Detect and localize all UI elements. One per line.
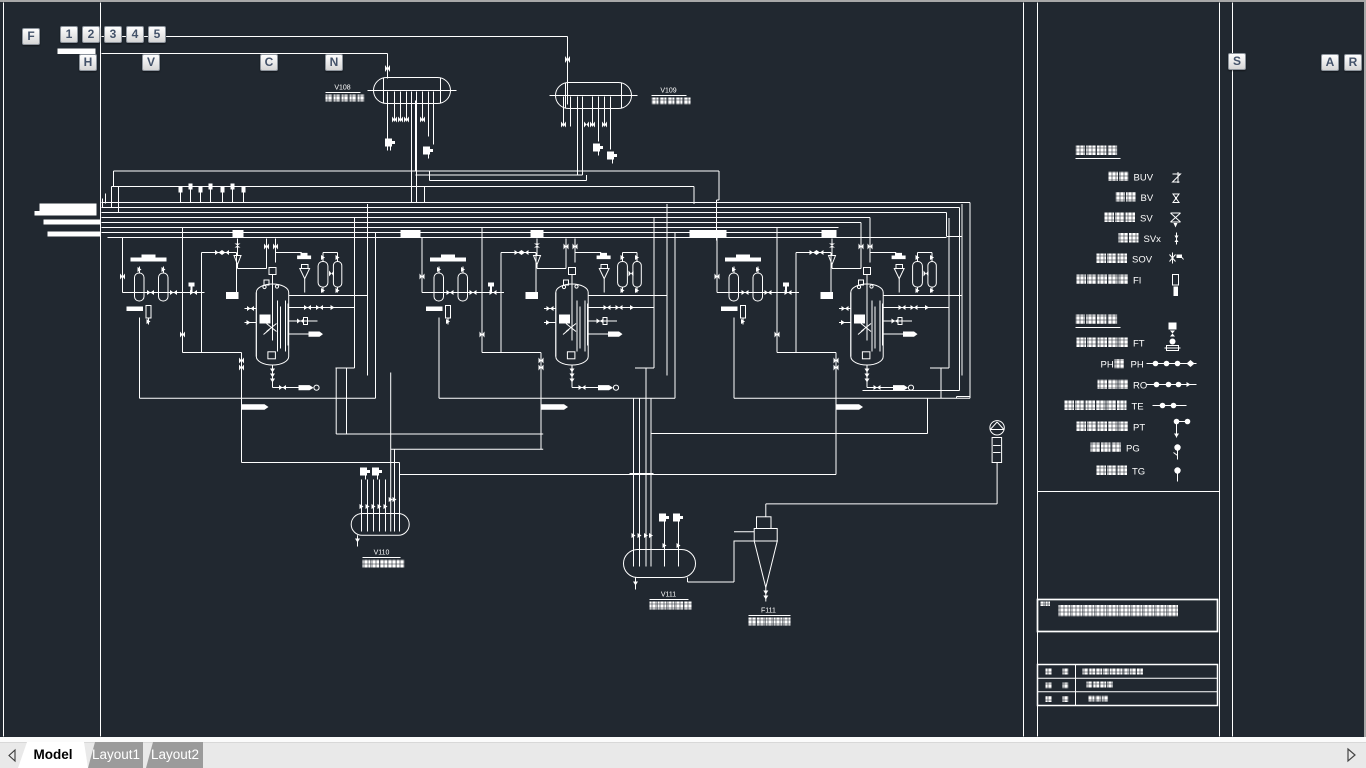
stepped label right (filled) (892, 253, 906, 259)
svg-text:TG: TG (1132, 467, 1145, 478)
stepped label block (filled) (131, 255, 167, 262)
wire P2 (391, 448, 544, 450)
legend symbol ball valve (1173, 194, 1179, 203)
svg-text:BV: BV (1141, 193, 1154, 204)
cluster bottom long wire (734, 397, 970, 399)
V111 drop pipes (633, 474, 635, 567)
legend row FI (1077, 275, 1087, 285)
cyclone F111 body (754, 529, 777, 542)
bottom-left stream arrow (filled) (242, 404, 269, 410)
keytip N (325, 54, 343, 71)
column CA (318, 262, 328, 288)
steam trap row above bundle (180, 193, 182, 203)
stepped label block (filled) (725, 255, 761, 262)
bottom outlet (272, 365, 274, 388)
wire right mid (588, 295, 667, 297)
tab bar background (0, 737, 1366, 768)
wire riser to V108 (387, 54, 389, 79)
wire cyclone to seal pot (765, 504, 767, 517)
legend symbol globe valve (1171, 213, 1181, 222)
sight glass (146, 306, 151, 319)
wire P1 (335, 368, 337, 434)
keytip 3 (104, 26, 122, 43)
pipe header bundle line 6 (102, 227, 839, 229)
draft tube internals (871, 301, 873, 352)
stepped label right (filled) (597, 253, 611, 259)
wire P4 to V111 and c3 (399, 463, 401, 475)
vessel inner white label (filled) (854, 315, 865, 324)
legend row PG (1091, 443, 1101, 453)
legend panel bottom border (1038, 491, 1220, 493)
label tag 2 (filled) (821, 292, 834, 299)
V110 outlet (357, 535, 359, 546)
stepped label block (filled) (430, 255, 466, 262)
V111 outlet right (687, 578, 689, 583)
pipe header bundle line 5 (102, 222, 862, 224)
wire inner box (777, 352, 836, 354)
svg-text:PT: PT (1133, 423, 1145, 434)
keytip 4 (126, 26, 144, 43)
Layout1 tab (88, 742, 143, 768)
title text fermentation workshop process flow diagram (1059, 605, 1071, 617)
info table row 3 (1046, 696, 1052, 702)
frame border right outer (1232, 3, 1234, 737)
right nozzle line 1 (588, 307, 654, 309)
svg-text:Layout1: Layout1 (92, 747, 140, 762)
vessel V109 air distribution tank (556, 83, 632, 109)
wire horizontal HA (651, 433, 928, 435)
legend symbol rotameter (1173, 275, 1179, 286)
keytip 2 (82, 26, 100, 43)
vessel bottom boot (268, 352, 276, 359)
svg-text:SVx: SVx (1144, 234, 1162, 245)
column CB (928, 262, 936, 288)
legend symbol PT (1174, 419, 1180, 425)
legend panel left border (1037, 3, 1039, 737)
keytip F (22, 28, 40, 45)
column CB (633, 262, 641, 288)
keytip H (79, 54, 97, 71)
legend symbol butterfly valve (1173, 172, 1181, 183)
V110 drop pipes (361, 480, 363, 532)
keytip S (1228, 53, 1246, 70)
valves on inner box top (215, 250, 222, 255)
wire right mid (883, 295, 962, 297)
fermenter vessel (256, 284, 288, 365)
wire upper header U1c (430, 180, 587, 182)
keytip 1 (60, 26, 78, 43)
label tag (filled) (721, 307, 738, 312)
air regulator (237, 239, 239, 256)
title block corner label (1041, 602, 1046, 607)
legend row BV (1116, 192, 1126, 202)
product arrow right (filled) (289, 333, 309, 335)
wire V111 gas riser (733, 541, 735, 583)
legend row FT (1077, 338, 1087, 348)
vessel nozzle circles (562, 285, 565, 288)
svg-text:BUV: BUV (1134, 173, 1154, 184)
legend row BUV (1109, 172, 1119, 182)
wire L1 link (956, 397, 958, 399)
vessel V108 steam distribution tank (374, 78, 451, 104)
T valve (783, 283, 789, 287)
wire inner box (183, 352, 242, 354)
wire right mid (289, 295, 368, 297)
left nozzles (839, 308, 851, 310)
tab bar left scroll arrow (4, 746, 24, 766)
valves on inner box top (515, 250, 522, 255)
V111 bundle jog header (630, 473, 654, 475)
valves on inner box top (810, 250, 817, 255)
right nozzle line 2 (883, 320, 912, 322)
svg-text:V111: V111 (661, 592, 676, 599)
valve on V109 riser (565, 56, 570, 63)
filter F-B (458, 273, 468, 301)
valve between columns (329, 271, 334, 277)
wire c2 drops to V111 bundle (633, 398, 635, 473)
filter F-A (135, 273, 145, 301)
info table row 2 (1046, 683, 1052, 689)
stream inlet bar 3 (filled) (48, 232, 101, 237)
legend symbol RO chain (1147, 384, 1197, 386)
legend panel right border (1219, 3, 1221, 737)
drop B (940, 368, 942, 398)
svg-text:V108: V108 (334, 85, 350, 92)
draft tube internals (277, 301, 279, 352)
wire upper header U1b (416, 174, 583, 176)
vessel V110 sterilizer tank (351, 514, 409, 536)
right nozzle line 1 (289, 307, 355, 309)
filter F-B (753, 273, 763, 301)
V108 drop pipes (387, 92, 389, 151)
wire upper header U3 left risers (102, 199, 104, 208)
small cyclone (601, 265, 608, 269)
fermenter cluster 1 (120, 204, 376, 411)
svg-text:PH: PH (1101, 360, 1114, 371)
svg-text:SV: SV (1140, 214, 1153, 225)
column CA (618, 262, 628, 288)
T valve (189, 283, 195, 287)
legend row SOV (1097, 254, 1107, 264)
cyclone inlet duct (734, 531, 754, 533)
air regulator (831, 239, 833, 256)
wire inner box (482, 352, 541, 354)
wire upper header U2 (425, 186, 695, 188)
stepped label right (filled) (297, 253, 311, 259)
svg-text:F111: F111 (761, 608, 776, 615)
keytip R (1344, 54, 1362, 71)
left nozzles (544, 308, 556, 310)
tab bar top white strip (0, 737, 1366, 743)
cluster bottom long wire (439, 397, 675, 399)
svg-text:SOV: SOV (1132, 255, 1153, 266)
agitator motor (864, 268, 871, 275)
V109 drop pipes (563, 97, 565, 127)
frame border left inner (100, 3, 102, 737)
wire c1 drop B extension (346, 398, 348, 434)
bundle tee drops (565, 239, 567, 269)
bottom outlet (571, 365, 573, 388)
valve between columns (629, 271, 634, 277)
svg-text:RO: RO (1133, 381, 1147, 392)
valves on V108 drops (392, 117, 397, 123)
drop A (835, 353, 837, 411)
valves on filter line (147, 290, 154, 295)
V110 steam traps (360, 468, 367, 476)
dome fittings (859, 280, 864, 285)
V110 right drops (390, 373, 392, 532)
vessel inner white label (filled) (559, 315, 570, 324)
steam trap symbols V109 (593, 144, 600, 152)
wire drop c1 to V110 header P3 (241, 411, 243, 463)
keytip A (1321, 54, 1339, 71)
wire filter feed line (123, 292, 205, 294)
filter F-B (159, 273, 169, 301)
valve between columns (924, 271, 929, 277)
T valve (488, 283, 494, 287)
legend row SVx (1119, 233, 1129, 243)
toolbar fragment bar (filled) (58, 49, 96, 55)
wire upper header U1 (411, 101, 413, 203)
wire column header (918, 252, 933, 254)
legend symbol vortex flowmeter (1169, 323, 1177, 330)
legend heading valve marking (1076, 146, 1086, 156)
fermenter vessel (851, 284, 883, 365)
svg-text:V110: V110 (374, 550, 390, 557)
title block box (1038, 600, 1218, 632)
drop A (540, 353, 542, 411)
bottom-left stream arrow (filled) (836, 404, 863, 410)
tab bar right scroll arrow (1342, 746, 1362, 766)
Layout2 tab (146, 742, 203, 768)
steam trap symbols V108 (385, 139, 392, 147)
bundle tee drops (266, 239, 268, 269)
right frame verticals (948, 218, 950, 368)
product arrow right (filled) (883, 333, 903, 335)
cluster bottom long wire (140, 397, 376, 399)
wire supply line 2 (102, 53, 388, 55)
pipe header bundle line 7 (102, 232, 827, 234)
legend row SV (1105, 213, 1115, 223)
stream inlet bar 1 (filled) (40, 204, 97, 214)
legend symbol TE chain (1153, 405, 1187, 407)
Model tab (active) (0, 742, 220, 768)
bottom product arrow (filled) (273, 387, 299, 389)
legend symbol solenoid valve (1172, 253, 1174, 264)
legend heading instrument marking (1076, 315, 1086, 325)
label tag (filled) (127, 307, 144, 312)
legend symbol PH chain (1147, 363, 1197, 365)
label tag 2 (filled) (226, 292, 239, 299)
sight glass (446, 306, 451, 319)
wire left riser (122, 238, 124, 293)
vessel V111 off-gas sterilizer (624, 550, 696, 578)
impeller (267, 324, 277, 332)
fermenter cluster 2 (420, 204, 676, 411)
air regulator (536, 239, 538, 256)
keytip V (142, 54, 160, 71)
drop B (645, 368, 647, 398)
left nozzles (245, 308, 257, 310)
vessel inner white label (filled) (260, 315, 271, 324)
impeller (861, 324, 871, 332)
draft tube internals (576, 301, 578, 352)
stream inlet bar 2 (filled) (44, 220, 101, 225)
wire cyclone feed (575, 252, 601, 254)
cyclone outlet (765, 588, 767, 602)
legend symbol TG (1174, 467, 1180, 473)
filter F-A (729, 273, 739, 301)
pipe header bundle line 2 (102, 207, 960, 209)
fermenter cluster 3 (715, 204, 971, 411)
valves on filter line (742, 290, 749, 295)
window right border strip (1364, 0, 1366, 737)
pipe header bundle line 3 (102, 212, 947, 214)
V111 outlet left (635, 578, 637, 590)
vessel bottom boot (567, 352, 575, 359)
fermenter vessel (556, 284, 588, 365)
right tap (375, 233, 377, 398)
vessel nozzle circles (263, 285, 266, 288)
wire cyclone feed (870, 252, 896, 254)
svg-text:PH: PH (1131, 360, 1144, 371)
small cyclone (302, 265, 309, 269)
bottom outlet (866, 365, 868, 388)
legend symbol cock (1176, 233, 1178, 245)
pipe header bundle line 8 (108, 237, 947, 239)
wire filter feed line (422, 292, 504, 294)
line number tags on bundle (filled) (233, 230, 244, 237)
wire riser to V109 (567, 37, 569, 105)
label tag 2 (filled) (526, 292, 539, 299)
dome fittings (564, 280, 569, 285)
wire column header (623, 252, 638, 254)
svg-text:V109: V109 (660, 88, 676, 95)
wire steam supply top (102, 36, 568, 38)
valves on V109 drops (561, 122, 566, 128)
wire mid riser (776, 228, 778, 353)
pipe header bundle line 1 (102, 202, 971, 204)
wire filter feed line (717, 292, 799, 294)
valves on filter line (447, 290, 454, 295)
agitator motor (269, 268, 276, 275)
legend row PT (1077, 422, 1087, 432)
wire left riser (421, 238, 423, 293)
column CB (333, 262, 341, 288)
right frame verticals (653, 218, 655, 368)
svg-text:Layout2: Layout2 (151, 747, 199, 762)
window top border strip (0, 0, 1366, 2)
right nozzle line 2 (588, 320, 617, 322)
column CA (913, 262, 923, 288)
wire column header (323, 252, 338, 254)
vessel bottom boot (862, 352, 870, 359)
wire c2 drop A extension (540, 411, 542, 450)
svg-text:FT: FT (1133, 339, 1145, 350)
svg-text:TE: TE (1132, 402, 1144, 413)
frame border left outer (3, 3, 5, 737)
right nozzle line 1 (883, 307, 949, 309)
seal pot instrument (990, 421, 1004, 435)
dome fittings (264, 280, 269, 285)
bottom product arrow (filled) (867, 387, 893, 389)
pipe header bundle line 4 (102, 217, 871, 219)
wire mid riser (481, 228, 483, 353)
impeller (566, 324, 576, 332)
keytip C (260, 54, 278, 71)
sight glass (741, 306, 746, 319)
agitator motor (569, 268, 576, 275)
right nozzle line 2 (289, 320, 318, 322)
bundle tee drops (860, 239, 862, 269)
legend row RO (1098, 380, 1108, 390)
legend row TG (1097, 466, 1107, 476)
small cyclone (896, 265, 903, 269)
filter F-A (434, 273, 444, 301)
wire cyclone feed (276, 252, 302, 254)
svg-text:PG: PG (1126, 444, 1140, 455)
svg-text:FI: FI (1133, 276, 1141, 287)
bottom-left stream arrow (filled) (541, 404, 568, 410)
right frame verticals (354, 218, 356, 368)
svg-text:Model: Model (34, 747, 73, 762)
legend symbol PG (1174, 444, 1180, 450)
product arrow right (filled) (588, 333, 608, 335)
info table box (1038, 665, 1218, 706)
V111 flag drops (659, 514, 666, 522)
label tag (filled) (426, 307, 443, 312)
drop A (241, 353, 243, 411)
right tap (674, 233, 676, 398)
frame border right of drawing (1023, 3, 1025, 737)
valve on V108 riser (385, 65, 390, 72)
keytip 5 (148, 26, 166, 43)
wire left riser (716, 238, 718, 293)
info table row 1 (1046, 669, 1052, 675)
drop B (346, 368, 348, 398)
bundle right risers (969, 203, 971, 397)
legend row TE (1065, 401, 1075, 411)
vessel nozzle circles (857, 285, 860, 288)
wire mid riser (182, 228, 184, 353)
right tap (969, 233, 971, 398)
bottom product arrow (filled) (572, 387, 598, 389)
